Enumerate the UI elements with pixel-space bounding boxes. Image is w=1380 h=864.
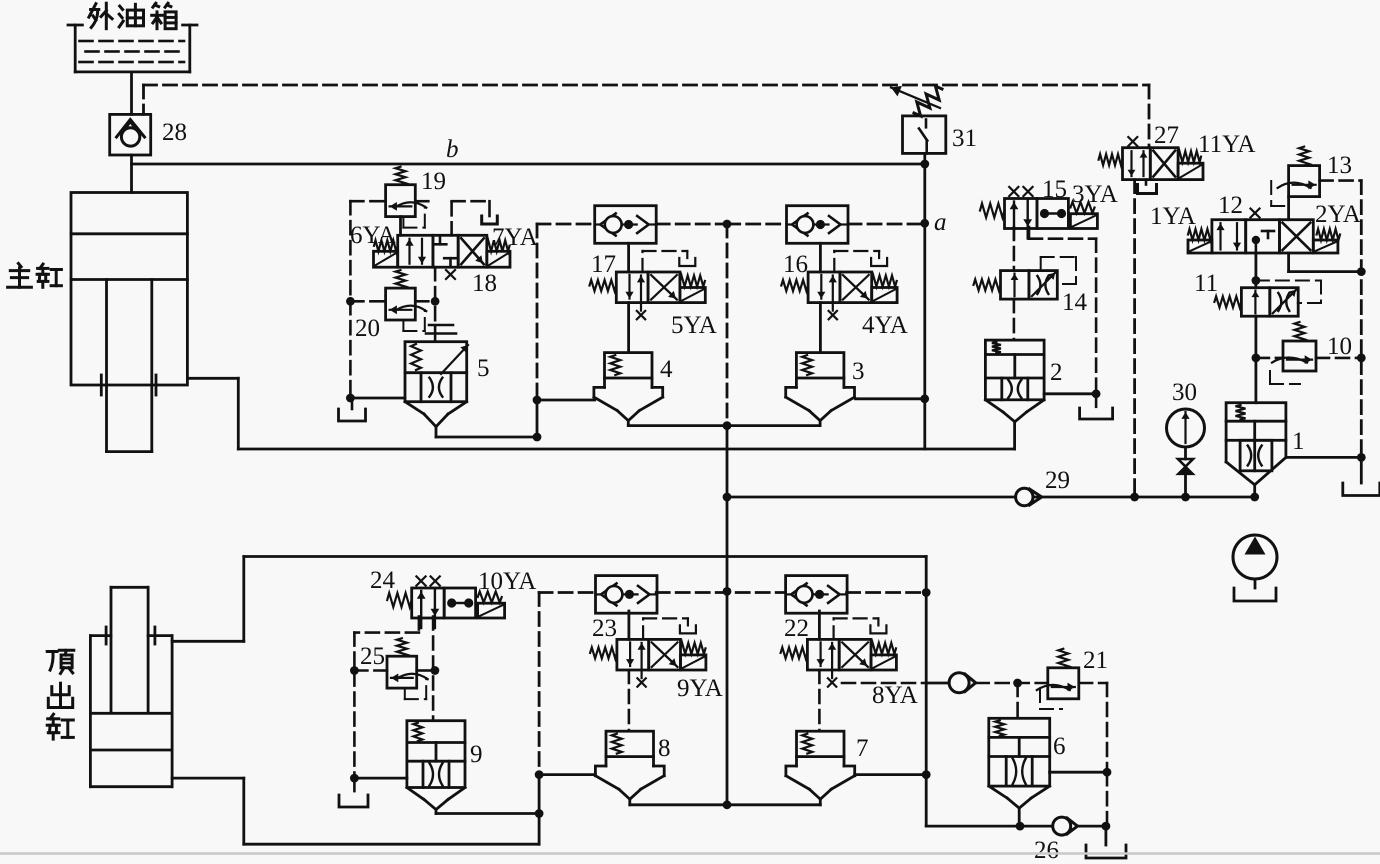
check valve 28	[110, 114, 151, 155]
svg-text:11: 11	[1194, 270, 1218, 297]
pilot line 8YA to valve 21	[842, 682, 949, 685]
svg-text:3: 3	[852, 358, 865, 385]
dashed links valve 25	[354, 669, 433, 672]
wire valve9 left flange	[354, 777, 407, 780]
solenoid valve 22	[781, 618, 897, 686]
wire ejector bottom port	[172, 775, 539, 845]
wire main cylinder rod side to line a bottom	[187, 378, 1014, 449]
wire valve6 funnel to bottom line	[1018, 808, 1021, 826]
dashed pilot vertical right of group 5	[536, 224, 539, 400]
cartridge valve 4	[594, 353, 663, 426]
solenoid valve 27	[1099, 137, 1203, 180]
wire cartridge2 right to dashed drop	[1044, 392, 1096, 395]
dashed bracket below valve 10	[1270, 371, 1300, 384]
svg-text:1: 1	[1292, 428, 1305, 455]
ejector cylinder (ding chu gang)	[90, 587, 172, 786]
check valve 29	[1016, 488, 1042, 505]
svg-text:16: 16	[783, 251, 808, 278]
svg-text:15: 15	[1042, 176, 1067, 203]
svg-text:9YA: 9YA	[677, 675, 723, 702]
relief valve 21	[1037, 649, 1079, 699]
wire check23 to valve23	[628, 611, 631, 639]
svg-text:23: 23	[592, 615, 617, 642]
grey scan rule at bottom	[0, 852, 1380, 855]
pilot check valve box 17-top	[595, 206, 657, 244]
pilot valve 31	[903, 116, 946, 153]
svg-text:20: 20	[355, 315, 380, 342]
right dashed pilot vertical	[1360, 181, 1363, 458]
svg-text:26: 26	[1034, 837, 1059, 864]
svg-text:5YA: 5YA	[671, 312, 717, 339]
bottom drain line + check valve 26	[1020, 817, 1106, 835]
wire check16 to valve16	[819, 243, 822, 272]
dashed pilot valve24 to cartridge 9	[432, 617, 435, 721]
wire valve5 funnel to drain junction	[436, 400, 595, 437]
label 主缸 (main cylinder)	[8, 264, 62, 288]
cartridge throttle valve 9	[407, 721, 465, 810]
cartridge valve 3	[786, 353, 855, 426]
svg-text:6YA: 6YA	[350, 222, 396, 249]
wire valve1 right output	[1286, 456, 1361, 459]
pilot check valve box 23-top	[596, 576, 658, 614]
solenoid valve 24 (3-position)	[387, 576, 504, 628]
pilot check valve box 22-top	[786, 576, 848, 614]
wire valve17 to cartridge 4	[627, 303, 630, 353]
wire valve28 to main cylinder	[130, 155, 133, 193]
wire valve16 to cartridge 3	[819, 303, 822, 353]
wire cartridge 4/3 funnels to centre line	[628, 424, 820, 427]
svg-text:18: 18	[472, 270, 497, 297]
relief valve 20	[386, 270, 427, 331]
svg-text:13: 13	[1327, 152, 1352, 179]
svg-text:10: 10	[1327, 333, 1352, 360]
wire valve12 right-bottom to right drop	[1289, 253, 1362, 272]
wire flange line valve5 left	[352, 397, 405, 400]
wire tank to check valve 28	[130, 72, 133, 115]
svg-text:11YA: 11YA	[1198, 131, 1255, 158]
svg-text:17: 17	[591, 251, 616, 278]
wire valve9 funnel to drain	[436, 810, 539, 814]
drain bracket below valve 27	[1138, 180, 1157, 194]
svg-text:22: 22	[784, 615, 809, 642]
wire valve19 to valve18	[399, 217, 402, 236]
svg-text:4: 4	[660, 356, 673, 383]
svg-text:5: 5	[477, 355, 490, 382]
main cartridge valve 1	[1226, 403, 1286, 485]
svg-text:14: 14	[1062, 289, 1088, 316]
tank bracket below left dashed	[339, 778, 368, 807]
svg-text:2: 2	[1050, 359, 1063, 386]
wire valve11 to cartridge 1	[1255, 316, 1258, 403]
pilot dashes check to valve21	[976, 683, 1107, 772]
dashed wire valve23 to cartridge 8	[628, 670, 631, 731]
dashed pilot valve24 left branch	[354, 617, 419, 779]
svg-text:28: 28	[162, 119, 187, 146]
cartridge throttle valve 5	[405, 342, 468, 427]
relief valve 19	[386, 167, 427, 228]
drain bracket below valve2 right	[1080, 394, 1113, 419]
dashed drain bracket above valve 18 right	[452, 201, 498, 235]
right vertical line down	[926, 557, 1020, 827]
dashed pilot rectangle around group 5	[350, 201, 435, 398]
pressure gauge 30	[1167, 409, 1205, 447]
lower pilot dashed line	[539, 593, 926, 775]
gauge isolator valve	[1178, 447, 1193, 497]
wire valve8 left flange	[539, 773, 595, 776]
wire valve3 right flange to a-line	[856, 397, 925, 400]
cartridge throttle valve 6	[989, 718, 1050, 808]
wire cartridge2 funnel to a-line bottom	[1013, 422, 1016, 449]
main pump pressure line	[727, 496, 1255, 499]
drain tank bracket left of valve 5	[339, 398, 366, 421]
pilot check valve box 16-top	[787, 206, 849, 244]
solenoid valve 18 (3-position)	[374, 235, 511, 279]
dashed pilot to valve 6	[1016, 683, 1019, 718]
orifice bars above valve 5	[426, 325, 456, 334]
dashed below valve6 right	[1106, 772, 1109, 826]
svg-text:31: 31	[952, 125, 977, 152]
svg-text:9: 9	[470, 741, 483, 768]
check valve on 8YA pilot	[949, 673, 976, 693]
solenoid valve 17	[590, 251, 706, 319]
wire cartridge 8/7 funnels to centre line	[630, 803, 821, 806]
svg-text:29: 29	[1045, 467, 1070, 494]
dashed bracket below valve 21	[1040, 689, 1062, 709]
svg-text:4YA: 4YA	[862, 312, 908, 339]
svg-text:10YA: 10YA	[478, 568, 536, 595]
dashed bracket above valve 14	[1041, 257, 1076, 284]
wire valve31 down / node a vertical	[923, 153, 926, 449]
svg-text:3YA: 3YA	[1072, 181, 1118, 208]
svg-text:19: 19	[421, 168, 446, 195]
wire check17 to valve17	[627, 243, 630, 272]
svg-text:a: a	[934, 209, 947, 236]
svg-text:7: 7	[856, 735, 869, 762]
tank bracket right of valve 1	[1343, 457, 1380, 495]
label 顶出缸 (ejector cylinder)	[47, 650, 74, 739]
dashed pilot left of valve 13	[1271, 181, 1288, 206]
wire valve1 funnel to pump line	[1253, 485, 1256, 497]
wire valve12 centre to valve 11	[1255, 253, 1258, 288]
wire valve7 right flange to right line	[855, 773, 927, 776]
dashed wire valve15 box2 to right drop	[1029, 227, 1096, 394]
centre vertical line	[726, 426, 729, 805]
svg-text:b: b	[446, 136, 459, 163]
line b horizontal	[132, 163, 925, 166]
svg-text:30: 30	[1172, 379, 1197, 406]
dashed pilot centre vertical	[726, 224, 729, 426]
dashed wire valve22 to cartridge 7	[818, 670, 821, 731]
svg-text:1YA: 1YA	[1150, 203, 1196, 230]
dashed wire valve15 to valve14	[1013, 227, 1016, 271]
wire valve13 to valve12	[1287, 197, 1290, 220]
spring+arrow above valve 31	[891, 86, 942, 116]
solenoid valve 12 (3-position 4-way)	[1188, 209, 1340, 254]
solenoid valve 15 (3-position)	[980, 187, 1097, 239]
main cylinder (zhu gang)	[71, 193, 187, 452]
wire valve6 right output	[1050, 771, 1107, 774]
junction dots on group5 pilot	[346, 297, 355, 306]
dashed pilot around valve 11	[1256, 281, 1321, 304]
svg-text:8YA: 8YA	[872, 682, 918, 709]
svg-text:7YA: 7YA	[492, 224, 538, 251]
wire ejector rod side to top line	[172, 557, 926, 642]
tank bracket bottom right	[1086, 826, 1126, 858]
svg-text:24: 24	[370, 567, 396, 594]
hydraulic pump	[1233, 535, 1277, 601]
svg-text:27: 27	[1154, 122, 1179, 149]
svg-text:12: 12	[1218, 192, 1243, 219]
svg-text:6: 6	[1053, 733, 1066, 760]
svg-text:25: 25	[360, 643, 385, 670]
cartridge valve 8	[595, 731, 664, 805]
relief valve 25	[387, 638, 428, 699]
solenoid valve 23	[590, 618, 706, 686]
svg-text:2YA: 2YA	[1315, 201, 1361, 228]
pilot dashed line from tank line to top right	[144, 85, 1150, 148]
cartridge valve 7	[786, 731, 855, 805]
throttle valve 14	[974, 271, 1058, 300]
svg-text:8: 8	[658, 735, 671, 762]
dashed wire valve13 right to right drop	[1320, 179, 1362, 182]
relief valve 10 on dashed pilot	[1272, 322, 1316, 371]
dashed pilot from valve27 down to pump line	[1133, 180, 1136, 497]
solenoid valve 16	[781, 251, 897, 319]
wire check22 to valve22	[818, 611, 821, 639]
pilot dashed line through check valves 17/16 to node a	[537, 223, 925, 226]
cartridge throttle valve 2	[985, 340, 1044, 422]
dashed wire valve14 to cartridge 2	[1013, 299, 1016, 340]
throttle valve 11	[1214, 288, 1298, 317]
relief valve 13	[1278, 147, 1320, 197]
label 外油箱 (external oil tank)	[89, 3, 176, 29]
oil tank T0	[68, 25, 197, 72]
dashed pilot line through valve 10	[1256, 357, 1361, 360]
svg-text:21: 21	[1083, 647, 1108, 674]
